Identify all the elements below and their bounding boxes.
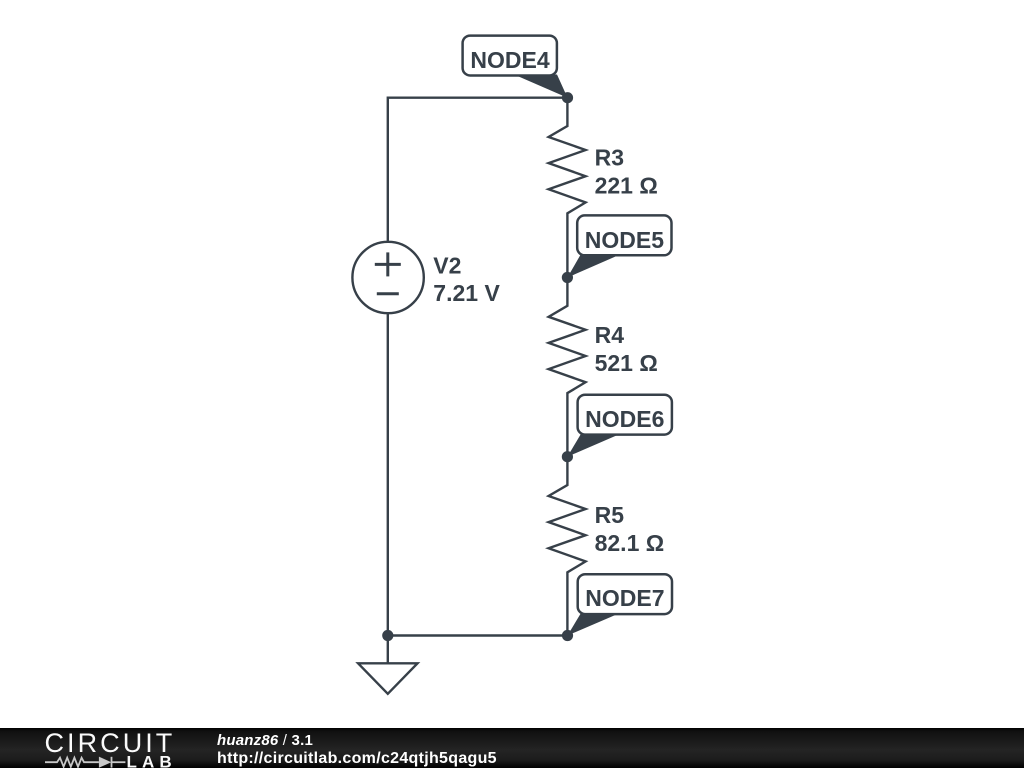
svg-text:V2: V2 [433, 252, 461, 278]
svg-text:NODE6: NODE6 [585, 406, 664, 432]
svg-text:7.21 V: 7.21 V [433, 280, 500, 306]
node NODE4 dot [562, 92, 573, 103]
V2 plus sign [375, 263, 401, 266]
resistor R3 [549, 98, 586, 278]
svg-text:R3: R3 [595, 145, 624, 171]
node NODE7 dot [562, 630, 573, 641]
wire bottom horizontal [388, 634, 568, 636]
resistor R5 [549, 457, 586, 636]
svg-text:NODE4: NODE4 [470, 47, 549, 73]
svg-text:NODE5: NODE5 [585, 227, 664, 253]
svg-text:NODE7: NODE7 [585, 585, 664, 611]
svg-text:R5: R5 [595, 502, 625, 528]
callout NODE4 [463, 36, 568, 98]
CircuitLab logo [0, 728, 200, 768]
node NODE6 dot [562, 451, 573, 462]
wire ground stub [387, 636, 389, 664]
svg-text:82.1 Ω: 82.1 Ω [595, 530, 665, 556]
svg-text:LAB: LAB [127, 752, 177, 768]
callout NODE5 [567, 215, 671, 277]
voltage source V2 circle [352, 242, 423, 313]
wire left upper vertical [387, 97, 389, 242]
wire left lower vertical [387, 314, 389, 636]
footer bar [0, 728, 1024, 768]
callout NODE7 [568, 574, 673, 635]
svg-text:R4: R4 [595, 322, 625, 348]
wire top horizontal [388, 96, 568, 98]
footer text [217, 732, 497, 767]
node NODE5 dot [562, 272, 573, 283]
svg-text:221 Ω: 221 Ω [595, 173, 658, 199]
node A junction dot left bottom [382, 630, 393, 641]
ground symbol triangle [358, 663, 417, 694]
svg-text:521 Ω: 521 Ω [595, 350, 658, 376]
resistor R4 [549, 278, 586, 457]
V2 minus sign [377, 292, 399, 295]
callout NODE6 [567, 395, 671, 457]
